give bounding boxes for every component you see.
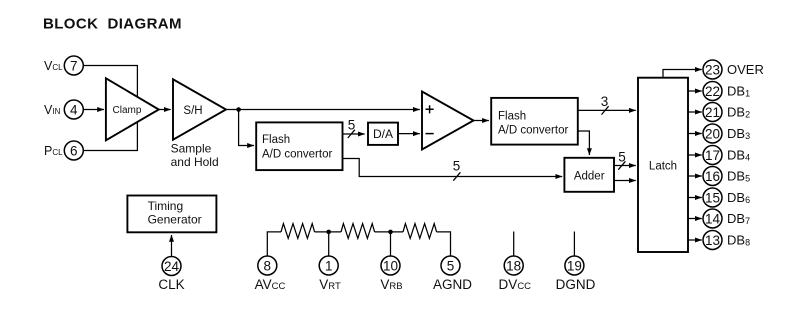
pin 24 CLK (158, 257, 184, 293)
svg-text:OVER: OVER (727, 62, 764, 77)
svg-text:13: 13 (705, 233, 720, 248)
D/A convertor (368, 123, 398, 145)
pin 15 DB6 (703, 188, 750, 207)
svg-text:14: 14 (705, 211, 721, 226)
svg-text:Adder: Adder (574, 171, 605, 183)
svg-text:Latch: Latch (649, 161, 677, 173)
comparator/subtractor (422, 92, 474, 150)
svg-text:5: 5 (453, 159, 461, 174)
svg-text:7: 7 (70, 58, 78, 73)
pin 13 DB8 (703, 231, 750, 250)
node VRB junction (388, 230, 393, 235)
pin 16 DB5 (703, 167, 750, 186)
wire junction down to flash A/D 1 (239, 110, 254, 146)
svg-text:17: 17 (705, 148, 720, 163)
svg-text:A/D convertor: A/D convertor (498, 125, 568, 137)
node S/H output junction (236, 107, 241, 112)
pin 22 DB1 (703, 82, 750, 101)
wire latch to DB6 (688, 197, 702, 199)
pin 14 DB7 (703, 209, 750, 228)
pin 5 AGND (433, 256, 472, 292)
pin 6 PCL (44, 141, 83, 160)
wire latch to DB1 (688, 90, 702, 92)
wire latch to OVER pin 23 (663, 70, 702, 78)
latch (638, 78, 688, 252)
wire DVCC stub (513, 232, 515, 257)
wire node VRT down (328, 232, 330, 256)
svg-text:20: 20 (705, 126, 720, 141)
resistor R1 (281, 224, 315, 239)
wire adder to latch 2 (614, 180, 636, 182)
svg-text:BLOCK DIAGRAM: BLOCK DIAGRAM (43, 16, 182, 33)
S/H amp (171, 79, 226, 169)
wire node VRB down (390, 232, 392, 256)
svg-text:5: 5 (618, 150, 626, 165)
svg-text:4: 4 (70, 102, 78, 117)
wire ladder left stub (267, 232, 281, 256)
pin 23 OVER (703, 60, 764, 79)
wire latch to DB8 (688, 239, 702, 241)
svg-text:22: 22 (705, 84, 720, 99)
wire flash1 to adder bus 5 (343, 159, 563, 181)
svg-text:6: 6 (70, 143, 78, 158)
pin 20 DB3 (703, 124, 750, 143)
wire ladder right stub (437, 232, 451, 256)
timing generator (127, 196, 216, 233)
adder (564, 158, 614, 192)
svg-text:D/A: D/A (373, 127, 393, 141)
svg-text:23: 23 (705, 62, 720, 77)
resistor R2 (341, 224, 375, 239)
wire D/A to comparator - input (398, 133, 420, 135)
wire DGND stub (573, 232, 575, 257)
pin 17 DB4 (703, 146, 750, 165)
wire adder to latch bus 5 (614, 150, 636, 170)
pin 21 DB2 (703, 103, 750, 122)
wire clamp to S/H (159, 109, 171, 111)
svg-text:5: 5 (447, 258, 455, 273)
svg-text:S/H: S/H (183, 105, 202, 117)
clamp amp A1 (106, 78, 159, 140)
svg-text:18: 18 (506, 258, 521, 273)
wire flash2 to adder (578, 131, 590, 155)
svg-text:15: 15 (705, 190, 720, 205)
node VRT junction (326, 230, 331, 235)
pin 10 VRB (380, 256, 402, 292)
svg-text:A/D convertor: A/D convertor (262, 149, 332, 161)
wire CLK to timing generator (171, 235, 173, 256)
pin 4 VIN (44, 100, 83, 119)
wire latch to DB5 (688, 175, 702, 177)
resistor R3 (403, 224, 437, 239)
wire flash1 to D/A bus 5 (343, 118, 365, 139)
pin 8 AVCC (255, 256, 286, 292)
pin 18 DVCC (499, 256, 532, 292)
svg-text:Generator: Generator (148, 213, 202, 227)
svg-text:CLK: CLK (158, 277, 184, 292)
wire S/H to comparator + input (226, 109, 420, 111)
svg-text:24: 24 (164, 259, 180, 274)
svg-text:21: 21 (705, 105, 720, 120)
svg-text:1: 1 (325, 258, 333, 273)
pin 19 DGND (556, 256, 596, 292)
svg-text:Flash: Flash (262, 134, 290, 146)
svg-text:Sample: Sample (171, 142, 212, 156)
wire comparator to flash A/D 2 (474, 120, 489, 122)
svg-text:Clamp: Clamp (113, 105, 142, 116)
flash A/D convertor 2 (491, 98, 578, 145)
svg-text:DGND: DGND (556, 277, 596, 292)
wire latch to DB2 (688, 111, 702, 113)
svg-text:19: 19 (567, 258, 582, 273)
wire VIN to clamp (83, 109, 104, 111)
svg-text:16: 16 (705, 169, 720, 184)
wire flash2 to latch bus 3 (578, 94, 636, 115)
flash A/D convertor 1 (256, 122, 342, 170)
svg-text:10: 10 (383, 258, 398, 273)
wire VCL/PCL riser through clamp (83, 66, 137, 151)
pin 1 VRT (319, 256, 341, 292)
svg-text:Flash: Flash (498, 111, 526, 123)
wire R1 to node VRT (315, 231, 341, 233)
svg-text:3: 3 (601, 94, 609, 109)
svg-text:Timing: Timing (148, 199, 184, 213)
wire R2 to node VRB (375, 231, 403, 233)
wire latch to DB3 (688, 133, 702, 135)
wire latch to DB7 (688, 218, 702, 220)
wire latch to DB4 (688, 154, 702, 156)
svg-text:AGND: AGND (433, 277, 472, 292)
svg-text:5: 5 (348, 118, 356, 133)
pin 7 VCL (44, 56, 83, 75)
svg-text:and Hold: and Hold (171, 155, 219, 169)
svg-text:8: 8 (264, 258, 272, 273)
